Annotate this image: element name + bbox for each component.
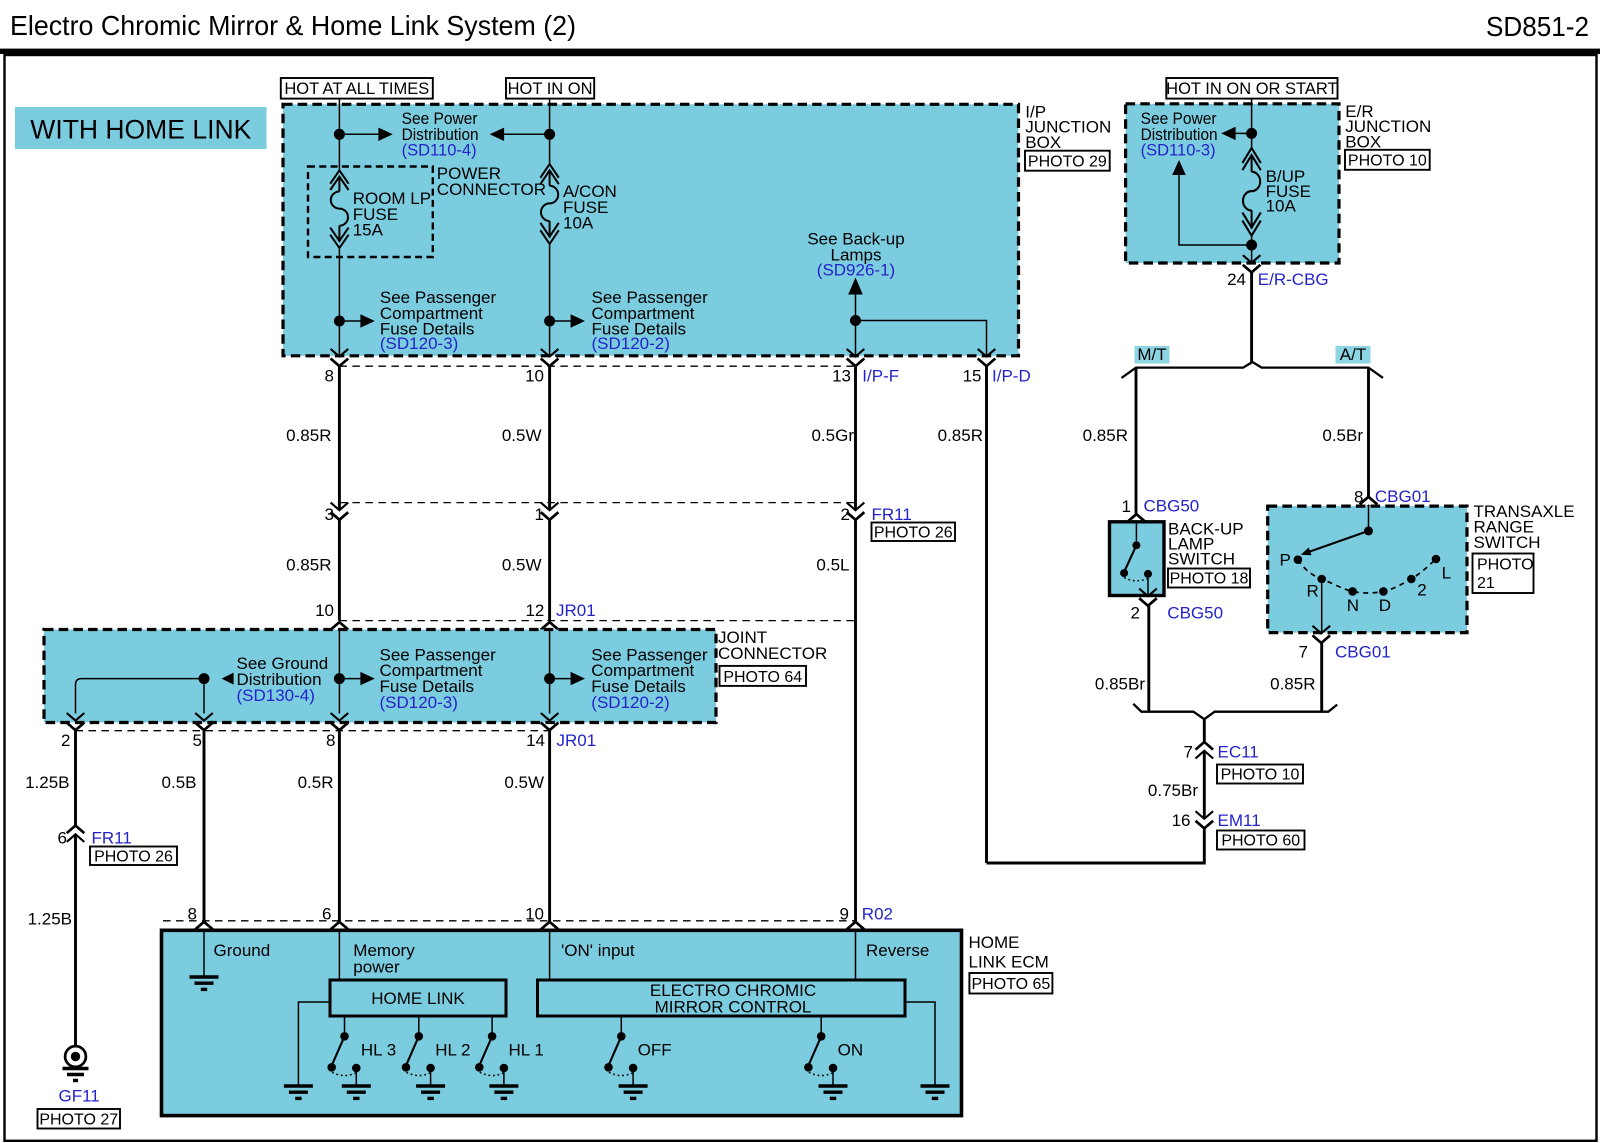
svg-text:15: 15: [963, 367, 982, 386]
svg-text:0.85R: 0.85R: [286, 556, 331, 575]
pin label 2 CBG50: [1131, 604, 1224, 623]
svg-text:SWITCH: SWITCH: [1474, 533, 1541, 552]
svg-text:0.5W: 0.5W: [502, 556, 542, 575]
svg-text:HL 1: HL 1: [509, 1041, 544, 1060]
connector JR01 pin 14: [541, 713, 559, 730]
wire E/R-CBG trunk: [1250, 272, 1253, 362]
wire ground stub pin 8: [203, 930, 205, 977]
wire 1.25B (JR01-2 to FR11-6): [74, 730, 77, 825]
svg-text:N: N: [1347, 596, 1359, 615]
wire 0.85R from transaxle switch: [1320, 643, 1323, 712]
svg-text:PHOTO 18: PHOTO 18: [1170, 570, 1249, 587]
svg-text:PHOTO 26: PHOTO 26: [94, 849, 173, 866]
switch OFF: [604, 1032, 637, 1086]
svg-text:CBG01: CBG01: [1375, 487, 1431, 506]
svg-text:L: L: [1442, 564, 1451, 583]
wire 10 lower segment: [549, 244, 551, 357]
switch contact right: [1144, 570, 1152, 578]
label See Passenger Compartment Fuse Details (SD120-2, joint): [591, 645, 708, 712]
pin label 6 FR11: [58, 829, 132, 848]
svg-text:Reverse: Reverse: [866, 941, 929, 960]
junction node to fuse details (SD120-3): [334, 316, 345, 327]
wire out of switch: [1147, 578, 1149, 596]
connector ECM pin 10 (ON input): [541, 922, 559, 938]
svg-text:HL 2: HL 2: [435, 1041, 470, 1060]
junction node E/R: [1246, 128, 1257, 139]
pin label 1 CBG50: [1122, 497, 1200, 517]
connector JR01 pin 12: [541, 622, 559, 638]
ground GF11: [63, 1046, 89, 1080]
connector CBG50 pin 2: [1139, 589, 1157, 606]
switch labels: [361, 1041, 863, 1060]
arrow to See Power Distribution (left): [490, 128, 550, 141]
ROOM LP FUSE box: [308, 167, 433, 258]
svg-text:0.85Br: 0.85Br: [1095, 675, 1145, 694]
svg-text:SWITCH: SWITCH: [1168, 550, 1235, 569]
wire labels row 4: [25, 773, 544, 792]
contact 2: [1407, 575, 1416, 584]
switch contact left: [1120, 569, 1128, 577]
wire 8 lower segment: [338, 248, 340, 357]
svg-text:WITH HOME LINK: WITH HOME LINK: [30, 115, 251, 145]
svg-text:OFF: OFF: [638, 1041, 672, 1060]
svg-text:0.85R: 0.85R: [1083, 426, 1128, 445]
junction node on wire 8: [334, 129, 345, 140]
label A/CON FUSE 10A: [563, 182, 617, 233]
svg-text:16: 16: [1172, 811, 1191, 830]
wire drop HL3: [344, 1016, 346, 1036]
wire A/T branch: [1367, 368, 1370, 497]
svg-text:PHOTO 10: PHOTO 10: [1221, 767, 1300, 784]
label HOT IN ON: [506, 78, 594, 99]
connector I/P pin 10: [541, 349, 559, 366]
svg-text:10A: 10A: [1266, 197, 1297, 216]
svg-text:14: 14: [526, 731, 545, 750]
contact N: [1348, 587, 1357, 596]
svg-text:HOT IN ON OR START: HOT IN ON OR START: [1166, 80, 1337, 98]
wire mirror control right ground: [905, 1002, 935, 1086]
connector EM11 pin 16: [1196, 811, 1214, 828]
wire 0.5Gr (pin 13 to FR11-2): [854, 366, 857, 510]
svg-text:E/R-CBG: E/R-CBG: [1258, 270, 1329, 289]
connector EC11 pin 7: [1196, 742, 1214, 758]
WITH HOME LINK label: [15, 107, 267, 149]
ground under switch HL 1: [489, 1086, 518, 1098]
svg-text:0.5B: 0.5B: [162, 773, 197, 792]
transaxle selector arrow toward P: [1301, 531, 1369, 555]
wire memory power stub: [338, 930, 340, 980]
HOME LINK ECM box: [162, 930, 962, 1115]
svg-text:12: 12: [525, 601, 544, 620]
wire 0.85Br from back-up switch: [1147, 606, 1150, 712]
svg-text:ON: ON: [838, 1041, 864, 1060]
pin labels JR01 upper: [315, 601, 596, 620]
label See Power Distribution (SD110-4): [402, 109, 479, 160]
svg-text:(SD110-3): (SD110-3): [1141, 141, 1216, 160]
svg-text:21: 21: [1477, 575, 1495, 592]
svg-text:(SD120-2): (SD120-2): [592, 334, 670, 353]
svg-text:0.5W: 0.5W: [504, 773, 544, 792]
fuse B/UP FUSE 10A symbol: [1242, 148, 1260, 236]
label ROOM LP FUSE 15A: [353, 189, 431, 240]
svg-text:GF11: GF11: [59, 1087, 100, 1106]
svg-text:0.75Br: 0.75Br: [1148, 781, 1198, 800]
connector JR01 pin 10: [331, 622, 349, 638]
contact labels P R N D 2 L: [1280, 551, 1452, 616]
svg-text:10: 10: [525, 905, 544, 924]
svg-text:'ON' input: 'ON' input: [561, 941, 635, 960]
pin labels FR11 row: [325, 505, 912, 524]
label PHOTO 26 (FR11): [872, 523, 956, 542]
wire 8 through joint box: [338, 631, 340, 714]
svg-text:0.5W: 0.5W: [502, 426, 542, 445]
svg-text:(SD130-4): (SD130-4): [237, 686, 315, 705]
wire into transaxle switch: [1368, 506, 1370, 527]
svg-text:8: 8: [188, 905, 197, 924]
label HOME LINK ECM: [969, 933, 1049, 971]
ground under switch HL 2: [416, 1086, 445, 1098]
svg-text:10A: 10A: [563, 214, 594, 233]
junction node on wire 10: [544, 129, 555, 140]
svg-text:(SD926-1): (SD926-1): [817, 261, 895, 280]
title separator bar: [0, 49, 1600, 54]
transaxle common contact: [1364, 526, 1373, 535]
svg-text:PHOTO 65: PHOTO 65: [971, 976, 1050, 993]
svg-text:CBG01: CBG01: [1335, 643, 1391, 662]
wire: HOT AT ALL TIMES feed: [338, 99, 340, 171]
svg-text:PHOTO: PHOTO: [1477, 557, 1534, 574]
connector face dashed line below I/P box: [339, 365, 855, 367]
label PHOTO 64: [720, 666, 807, 686]
ground under switch HL 3: [342, 1086, 371, 1098]
wire 14 through joint box: [549, 631, 551, 714]
svg-text:10: 10: [315, 601, 334, 620]
arrow to See Passenger Compartment Fuse Details (SD120-2): [550, 314, 585, 327]
wire M/T branch: [1135, 368, 1138, 514]
label TRANSAXLE RANGE SWITCH: [1474, 502, 1575, 552]
ground under switch ON: [819, 1086, 848, 1098]
connector FR11 pin 3: [331, 503, 349, 520]
switch throw arc: [1124, 578, 1148, 581]
label POWER CONNECTOR: [437, 164, 546, 199]
svg-text:PHOTO 10: PHOTO 10: [1348, 153, 1427, 170]
ELECTRO CHROMIC MIRROR CONTROL block: [538, 980, 906, 1016]
transaxle range switch box: [1268, 506, 1467, 632]
svg-text:Ground: Ground: [214, 941, 271, 960]
pin label 24 E/R-CBG: [1227, 270, 1329, 289]
svg-text:8: 8: [325, 367, 334, 386]
svg-text:7: 7: [1299, 643, 1308, 662]
junction node to fuse details (SD120-2): [544, 316, 555, 327]
connector face dashed line JR01 upper: [339, 620, 855, 622]
wire from back-up arrow to node: [855, 295, 857, 357]
pin label 8 CBG01: [1354, 487, 1431, 507]
switch ON: [804, 1032, 837, 1086]
connector JR01 pin 2: [67, 713, 85, 730]
connector face dashed line JR01 lower: [76, 730, 550, 732]
connector CBG01 pin 7: [1313, 626, 1331, 643]
label PHOTO 10 (E/R): [1345, 150, 1430, 170]
svg-text:R: R: [1307, 582, 1319, 601]
svg-text:0.85R: 0.85R: [1270, 675, 1315, 694]
label PHOTO 21: [1473, 554, 1534, 594]
contact P: [1294, 555, 1303, 564]
svg-text:6: 6: [58, 829, 67, 848]
svg-text:(SD120-2): (SD120-2): [591, 693, 669, 712]
fuse A/CON FUSE 10A symbol: [540, 164, 558, 244]
arrow up to See Back-up Lamps: [848, 278, 863, 295]
svg-text:HL 3: HL 3: [361, 1041, 396, 1060]
wire into switch: [1135, 523, 1137, 541]
svg-text:PHOTO 64: PHOTO 64: [723, 669, 802, 686]
svg-text:HOME LINK: HOME LINK: [371, 989, 465, 1008]
svg-text:(SD110-4): (SD110-4): [402, 141, 477, 160]
connector CBG50 pin 1: [1128, 514, 1146, 530]
arrow to See Ground Distribution: [222, 673, 234, 685]
switch lever: [1125, 545, 1137, 570]
wire 0.5W (FR11-1 to JR01-12): [548, 520, 551, 621]
svg-text:10: 10: [525, 367, 544, 386]
connector R02 pin 9 (reverse): [847, 922, 865, 938]
wire into EC11: [1203, 719, 1206, 742]
label A/T: [1336, 345, 1371, 364]
svg-text:1: 1: [535, 505, 544, 524]
svg-text:HOT IN ON: HOT IN ON: [508, 80, 593, 98]
svg-text:0.5Gr: 0.5Gr: [811, 426, 854, 445]
connector CBG01 pin 8: [1360, 497, 1378, 513]
pin label 7 CBG01: [1299, 643, 1391, 662]
wire 1.25B (FR11-6 to GF11): [74, 834, 77, 1046]
ground symbol mirror control right: [921, 1086, 950, 1098]
label See Ground Distribution (SD130-4): [237, 654, 329, 705]
label See Back-up Lamps (SD926-1): [807, 230, 904, 280]
wire drop HL1: [491, 1016, 493, 1036]
junction node on joint wire 8: [334, 673, 345, 684]
svg-text:2: 2: [1131, 604, 1140, 623]
wire labels row 2: [286, 556, 849, 575]
ground under switch OFF: [619, 1086, 648, 1098]
svg-text:1.25B: 1.25B: [28, 910, 72, 929]
svg-text:I/P-D: I/P-D: [992, 367, 1031, 386]
svg-text:power: power: [353, 958, 400, 977]
fuse ROOM LP FUSE 15A symbol: [330, 170, 348, 248]
wire 0.85R (pin 15 I/P-D down): [985, 366, 988, 863]
svg-text:5: 5: [193, 731, 202, 750]
connector JR01 pin 5: [195, 713, 213, 730]
switch HL 3: [327, 1032, 360, 1086]
svg-text:D: D: [1379, 596, 1391, 615]
label BACK-UP LAMP SWITCH: [1168, 520, 1244, 569]
connector FR11 pin 1: [541, 503, 559, 520]
E/R junction box label: [1345, 102, 1431, 152]
svg-text:0.85R: 0.85R: [286, 426, 331, 445]
pin labels I/P box exits: [325, 367, 1031, 386]
contact D: [1379, 587, 1388, 596]
arrow to See Power Distribution: [339, 128, 392, 141]
label PHOTO 65: [969, 973, 1052, 994]
transaxle gate arc: [1298, 559, 1436, 593]
HOME LINK block: [330, 980, 506, 1016]
svg-text:PHOTO 29: PHOTO 29: [1028, 154, 1107, 171]
svg-text:2: 2: [841, 505, 850, 524]
wire 0.75Br: [1203, 751, 1206, 819]
ground rail inside joint connector: [76, 679, 205, 714]
label PHOTO 60: [1217, 831, 1305, 850]
svg-text:6: 6: [322, 905, 331, 924]
svg-text:PHOTO 60: PHOTO 60: [1221, 833, 1300, 850]
label B/UP FUSE 10A: [1266, 167, 1311, 216]
label M/T: [1135, 345, 1170, 364]
svg-text:(SD120-3): (SD120-3): [380, 334, 458, 353]
connector ECM pin 8 (ground): [195, 922, 213, 938]
svg-text:I/P-F: I/P-F: [862, 367, 899, 386]
svg-text:HOME: HOME: [969, 933, 1020, 952]
pin label 7 EC11: [1184, 743, 1259, 762]
wire reverse stub: [855, 930, 857, 980]
svg-text:24: 24: [1227, 270, 1246, 289]
svg-text:EC11: EC11: [1218, 743, 1259, 762]
svg-text:CBG50: CBG50: [1167, 604, 1223, 623]
wire ON input stub: [549, 930, 551, 980]
svg-text:JR01: JR01: [557, 731, 597, 750]
svg-text:Electro Chromic Mirror & Home: Electro Chromic Mirror & Home Link Syste…: [10, 10, 576, 41]
junction node rail/pin5: [199, 673, 210, 684]
label PHOTO 26 (FR11-6): [90, 847, 177, 866]
svg-text:2: 2: [61, 731, 70, 750]
wire 0.5W (JR01-14 to ECM pin 10): [548, 730, 551, 921]
wire split bus M/T / A/T: [1122, 362, 1384, 378]
svg-text:0.5L: 0.5L: [816, 556, 849, 575]
label Memory power: [353, 941, 415, 977]
connector face dashed line ECM: [163, 920, 856, 922]
wire across to I/P-D pin: [856, 321, 987, 357]
label See Passenger Compartment Fuse Details (SD120-3): [380, 288, 497, 353]
wire 0.5W (pin 10 to FR11-1): [548, 366, 551, 510]
svg-text:(SD120-3): (SD120-3): [380, 693, 458, 712]
wire 0.5R (JR01-8 to ECM pin 6): [338, 730, 341, 921]
svg-text:0.5Br: 0.5Br: [1322, 426, 1363, 445]
connector I/P pin 8: [331, 349, 349, 366]
pin labels ECM row: [188, 905, 893, 924]
label PHOTO 18: [1168, 569, 1250, 588]
svg-text:MIRROR CONTROL: MIRROR CONTROL: [655, 997, 812, 1016]
wire pin5 drop: [203, 679, 205, 714]
svg-text:JR01: JR01: [556, 601, 596, 620]
arrow to fuse details (SD120-2, joint): [550, 672, 585, 685]
svg-text:8: 8: [1354, 488, 1363, 507]
connector E/R pin 24 E/R-CBG: [1243, 255, 1261, 272]
pin label 16 EM11: [1172, 811, 1261, 830]
svg-text:CBG50: CBG50: [1144, 497, 1200, 516]
wire below fuse to pin 24: [1251, 236, 1253, 263]
junction node above E/R-CBG: [1246, 240, 1257, 251]
wire labels row 1: [286, 426, 983, 445]
arrow to See Passenger Compartment Fuse Details (SD120-3): [339, 314, 374, 327]
label See Passenger Compartment Fuse Details (SD120-2): [592, 288, 709, 353]
svg-text:8: 8: [326, 731, 335, 750]
svg-text:HOT AT ALL TIMES: HOT AT ALL TIMES: [284, 80, 429, 98]
wire 0.85R (pin 8 to FR11-3): [338, 366, 341, 510]
wire: HOT IN ON OR START feed: [1251, 99, 1253, 148]
svg-text:13: 13: [832, 367, 851, 386]
arrow to See Power Distribution (SD110-3): [1221, 127, 1251, 140]
wire drop HL2: [418, 1016, 420, 1036]
joint connector box: [44, 630, 716, 723]
pin labels JR01 lower: [61, 731, 596, 750]
svg-text:PHOTO 27: PHOTO 27: [39, 1112, 118, 1129]
wire drop ON: [820, 1016, 822, 1036]
svg-text:0.85R: 0.85R: [938, 426, 983, 445]
joint connector label: [718, 628, 827, 663]
svg-text:0.5R: 0.5R: [298, 773, 334, 792]
wire 0.5L (FR11-2 to R02-9): [854, 520, 857, 922]
svg-text:M/T: M/T: [1137, 345, 1166, 364]
svg-text:R02: R02: [862, 905, 893, 924]
label PHOTO 27: [38, 1109, 121, 1129]
arrow to fuse details (SD120-3, joint): [339, 672, 374, 685]
wire drop OFF: [620, 1016, 622, 1036]
contact R: [1317, 575, 1326, 584]
svg-text:BOX: BOX: [1025, 133, 1061, 152]
label See Power Distribution (SD110-3): [1141, 109, 1218, 160]
wire from EM11 down and left to I/P-D branch: [987, 828, 1205, 863]
connector ECM pin 6 (memory power): [331, 922, 349, 938]
svg-text:EM11: EM11: [1218, 811, 1261, 830]
svg-text:LINK ECM: LINK ECM: [969, 952, 1049, 971]
connector I/P pin 15 I/P-D: [978, 349, 996, 366]
connector JR01 pin 8: [331, 713, 349, 730]
wire from up arrow to node: [1179, 175, 1252, 245]
junction node on joint wire 14: [544, 673, 555, 684]
label See Passenger Compartment Fuse Details (SD120-3, joint): [380, 645, 497, 712]
svg-text:P: P: [1280, 551, 1291, 570]
connector FR11 pin 6: [67, 826, 85, 842]
E/R junction box: [1126, 104, 1339, 263]
svg-text:15A: 15A: [353, 221, 384, 240]
svg-text:SD851-2: SD851-2: [1486, 11, 1589, 42]
merge bus into EC11: [1133, 704, 1337, 719]
wire HOME LINK left ground: [298, 1002, 330, 1086]
connector face dashed line FR11: [339, 502, 855, 504]
I/P junction box label: [1025, 102, 1111, 152]
label HOT IN ON OR START: [1166, 78, 1337, 99]
svg-text:CONNECTOR: CONNECTOR: [437, 180, 546, 199]
label PHOTO 29: [1025, 151, 1110, 171]
svg-text:1: 1: [1122, 497, 1131, 516]
connector I/P pin 13 I/P-F: [847, 349, 865, 366]
I/P junction box: [283, 104, 1019, 355]
svg-text:FR11: FR11: [872, 505, 912, 524]
svg-text:PHOTO 26: PHOTO 26: [874, 525, 953, 542]
wire from R contact down: [1321, 583, 1323, 633]
back-up lamp switch box: [1110, 522, 1165, 596]
arrow up (power distribution return): [1172, 160, 1186, 175]
svg-text:A/T: A/T: [1340, 345, 1366, 364]
label PHOTO 10 (EC11): [1217, 765, 1303, 784]
label HOT AT ALL TIMES: [281, 78, 433, 99]
switch common contact: [1132, 541, 1140, 549]
svg-text:7: 7: [1184, 743, 1193, 762]
svg-text:9: 9: [840, 905, 849, 924]
contact L: [1432, 555, 1441, 564]
ground symbol HOME LINK left: [284, 1086, 313, 1098]
ground symbol pin 8: [190, 977, 219, 989]
svg-text:2: 2: [1417, 581, 1426, 600]
switch HL 2: [402, 1032, 435, 1086]
connector FR11 pin 2: [847, 503, 865, 520]
svg-text:1.25B: 1.25B: [25, 773, 69, 792]
wire 0.85R (FR11-3 to JR01-10): [338, 520, 341, 621]
